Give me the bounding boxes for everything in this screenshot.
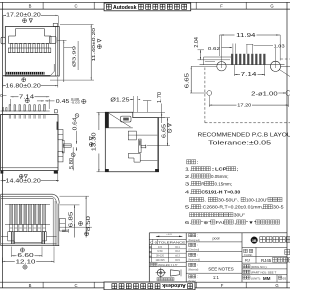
svg-text:2-ø1.00: 2-ø1.00 <box>251 91 278 97</box>
svg-text:(Approved): (Approved) <box>188 259 200 262</box>
svg-text:±0.2: ±0.2 <box>175 251 180 253</box>
svg-text:1:1: 1:1 <box>213 275 220 280</box>
svg-text::: : <box>196 160 198 165</box>
svg-text:120<315: 120<315 <box>155 259 165 262</box>
svg-text:(Material): (Material) <box>188 269 198 272</box>
svg-text:30U": 30U" <box>234 213 245 218</box>
svg-text:SEE NOTES: SEE NOTES <box>208 267 234 272</box>
svg-text:RECOMMENDED P.C.B LAYOUT: RECOMMENDED P.C.B LAYOUT <box>198 133 291 139</box>
svg-text:13.30: 13.30 <box>92 132 98 151</box>
svg-text:3B: 3B <box>252 239 257 243</box>
svg-text:0S: 0S <box>283 277 287 281</box>
svg-text:30<120: 30<120 <box>156 255 164 258</box>
svg-text:FAI: FAI <box>216 220 225 225</box>
svg-text:0.62: 0.62 <box>208 46 221 51</box>
svg-text:0.15mm;: 0.15mm; <box>215 181 233 186</box>
svg-text:6.65: 6.65 <box>161 124 167 138</box>
svg-text:,: , <box>234 220 237 225</box>
svg-text:2.04: 2.04 <box>194 37 200 48</box>
svg-text:(PART NO): SEE T: (PART NO): SEE T <box>251 271 276 275</box>
svg-text:0.64: 0.64 <box>73 117 79 130</box>
svg-text:17.20: 17.20 <box>237 102 251 108</box>
svg-text:30-50U": 30-50U" <box>218 197 237 202</box>
svg-text:6.60: 6.60 <box>17 253 34 259</box>
svg-text:、: 、 <box>237 197 241 202</box>
svg-text:0.45: 0.45 <box>56 99 70 105</box>
svg-text:3.: 3. <box>185 181 192 186</box>
svg-text:RJ45: RJ45 <box>261 258 272 263</box>
svg-text:16.80±0.20: 16.80±0.20 <box>6 83 42 89</box>
svg-text:≈0.30: ≈0.30 <box>227 190 240 195</box>
svg-text:6.: 6. <box>185 220 192 225</box>
svg-text:Autodesk: Autodesk <box>113 5 137 11</box>
svg-text::: : <box>197 234 198 238</box>
svg-text:100-120U": 100-120U" <box>246 197 268 202</box>
svg-text:B: B <box>29 283 32 288</box>
svg-text:2.: 2. <box>185 174 192 179</box>
svg-text:+-0.05: +-0.05 <box>166 234 173 236</box>
svg-text:(Scale): (Scale) <box>188 280 196 283</box>
svg-text:F: F <box>220 3 223 8</box>
svg-text:(ANGLES) ± 1.5°: (ANGLES) ± 1.5° <box>158 263 178 267</box>
svg-text:RJ: RJ <box>245 258 250 263</box>
svg-text:B: B <box>29 3 32 8</box>
svg-text::: : <box>197 253 198 257</box>
svg-text:F: F <box>221 283 224 288</box>
svg-text:-0.03: -0.03 <box>71 100 81 104</box>
svg-text:1.70: 1.70 <box>157 92 163 103</box>
svg-text:6<30: 6<30 <box>157 250 163 253</box>
svg-text:6.85: 6.85 <box>68 211 74 227</box>
svg-text:Autodesk: Autodesk <box>162 282 186 288</box>
svg-text:4.: 4. <box>185 190 192 195</box>
svg-text:C 0.TOLERANCE: C 0.TOLERANCE <box>150 241 185 245</box>
svg-text::C2680-R,T=0.20±0.01mm,: :C2680-R,T=0.20±0.01mm, <box>201 205 263 210</box>
svg-text:±0.5: ±0.5 <box>175 260 180 262</box>
svg-text:C: C <box>74 3 77 8</box>
svg-text:7.14: 7.14 <box>19 94 35 100</box>
svg-text:Ø1.25: Ø1.25 <box>110 98 130 104</box>
svg-text:、: 、 <box>204 197 208 202</box>
svg-text:5.80: 5.80 <box>69 158 75 169</box>
svg-text:1.: 1. <box>185 167 192 172</box>
svg-text:17.20±0.20: 17.20±0.20 <box>6 13 41 19</box>
svg-text:G: G <box>275 283 278 288</box>
svg-text:LCP: LCP <box>215 167 227 172</box>
svg-text:6.65: 6.65 <box>185 73 191 89</box>
svg-text:"⊕": "⊕" <box>201 220 211 225</box>
svg-text:pool: pool <box>213 236 220 240</box>
svg-text:C: C <box>74 283 77 288</box>
svg-text:11.94: 11.94 <box>236 33 256 39</box>
svg-text:(Designed): (Designed) <box>188 239 200 242</box>
svg-text:14.40±0.20: 14.40±0.20 <box>6 178 42 184</box>
svg-text:0.05mm;: 0.05mm; <box>211 174 229 179</box>
svg-text:12.10: 12.10 <box>16 259 36 265</box>
svg-text:±0.3: ±0.3 <box>175 256 180 258</box>
svg-text:(UNIT):: (UNIT): <box>251 276 261 280</box>
svg-text::: : <box>197 243 198 247</box>
svg-text:1.03: 1.03 <box>274 44 286 49</box>
svg-text::: : <box>197 263 198 267</box>
svg-text:11.40±0.20: 11.40±0.20 <box>91 27 96 61</box>
svg-text::: : <box>197 275 198 279</box>
svg-text:Tolerance:±0.05: Tolerance:±0.05 <box>208 140 271 146</box>
svg-text:0<6: 0<6 <box>158 246 163 249</box>
svg-text:C5191-H T: C5191-H T <box>201 190 227 195</box>
svg-text:MM: MM <box>263 276 271 281</box>
svg-text:(DWG NO.):: (DWG NO.): <box>251 265 267 269</box>
svg-text:7.14: 7.14 <box>241 72 257 78</box>
svg-text:±0.1: ±0.1 <box>175 247 180 249</box>
svg-text:5.: 5. <box>185 205 192 210</box>
svg-text:8.50: 8.50 <box>86 216 92 231</box>
svg-text:;: ; <box>236 167 238 172</box>
svg-text:"▼": "▼" <box>246 220 256 225</box>
svg-text:(Checked): (Checked) <box>188 249 199 252</box>
svg-text:G: G <box>270 3 273 8</box>
svg-text:Ø3.99: Ø3.99 <box>71 45 76 67</box>
svg-text:30-5: 30-5 <box>273 205 284 210</box>
